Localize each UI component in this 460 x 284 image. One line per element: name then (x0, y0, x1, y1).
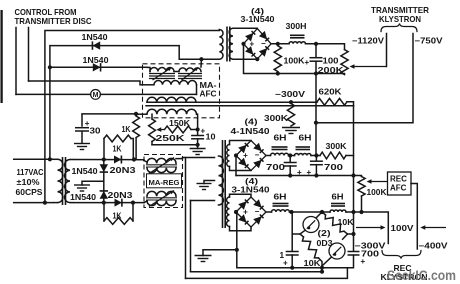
svg-text:3-1N540: 3-1N540 (232, 186, 271, 195)
svg-text:100V: 100V (391, 224, 415, 233)
label 700 (second) (324, 163, 344, 172)
label 620K (319, 88, 342, 97)
node junction vac bottom (43, 201, 47, 205)
resistor R6 200K pot (341, 50, 348, 75)
node junction 100K top (276, 42, 280, 46)
wire inner bottom rail (191, 268, 323, 272)
diode CR5 20N3 down (100, 164, 108, 172)
label 10 (206, 133, 216, 142)
label -750V (415, 37, 444, 46)
svg-text:+: + (361, 257, 366, 266)
svg-text:+: + (243, 151, 248, 160)
svg-text:1N540: 1N540 (82, 33, 108, 42)
label 100K (filter) (284, 56, 305, 65)
svg-text:250K: 250K (156, 134, 185, 143)
svg-text:−: − (255, 151, 260, 160)
wire bridge3 positive rail (266, 212, 388, 244)
svg-text:6H: 6H (274, 193, 287, 202)
transformer T3 secondary A (227, 145, 230, 167)
transformer T2 secondary (65, 160, 74, 203)
svg-text:−: − (255, 207, 260, 216)
svg-text:30: 30 (90, 127, 102, 136)
node junction -300V/300K (289, 100, 293, 104)
svg-text:+: + (305, 58, 310, 67)
resistor R8 620K (317, 98, 354, 105)
label +-10% (17, 178, 41, 187)
wire T3 primary bottom (191, 200, 215, 202)
svg-text:10K: 10K (338, 218, 354, 227)
variable transformer lower (MA-REG) (146, 191, 177, 207)
label -300V (terminal) (355, 242, 387, 251)
node junction 100K bottom (276, 71, 280, 75)
label CONTROL FROM TRANSMITTER DISC (15, 8, 92, 26)
wire bridge1 negative drop (244, 44, 345, 74)
resistor R10 10K upper (322, 212, 348, 234)
label (4) bridge3 (245, 177, 258, 186)
label TRANSMITTER (371, 6, 429, 15)
label (4) bridge1 (251, 7, 264, 16)
label 6H (fourth) (332, 193, 344, 202)
transformer T3 ground tap (197, 181, 215, 190)
svg-text:1K: 1K (122, 125, 131, 134)
wire -750V lead (316, 34, 413, 123)
node inner rail join (320, 270, 324, 274)
node junction cap10 bottom (196, 143, 200, 147)
wire 250K bottom to cap (152, 144, 198, 146)
capacitor C6 700 (348, 252, 360, 268)
variable inductor L1 (MA-AFC left) (149, 68, 175, 81)
svg-text:100K: 100K (367, 188, 387, 197)
wire +30 cap top run (82, 113, 136, 115)
label +100 (305, 56, 340, 67)
svg-text:700: 700 (266, 163, 286, 172)
svg-text:150K: 150K (169, 119, 190, 128)
label 700 (first) (266, 163, 286, 172)
MA-AFC dashed enclosure (143, 64, 220, 118)
wire x316 vertical (315, 74, 317, 156)
wire T1 sec bottom to bridge (233, 58, 257, 60)
label 100K (pot) (367, 188, 387, 197)
node junction y123 line (314, 121, 318, 125)
svg-text:1N540: 1N540 (83, 56, 109, 65)
label 150K (169, 119, 190, 128)
node reg diamond bottom (320, 266, 324, 270)
label 20N3 (upper) (110, 166, 137, 175)
label (4) bridge2 (245, 118, 258, 127)
transformer T1 core (227, 27, 230, 62)
svg-text:20N3: 20N3 (108, 191, 134, 200)
inductor 6H choke1 (271, 147, 289, 156)
node junction rail 700a (288, 173, 292, 177)
label 1N540 (second diode) (83, 56, 109, 65)
label 4-IN540 bridge2 (231, 127, 271, 136)
label (2) (318, 229, 331, 238)
MA-REG dashed enclosure (144, 155, 183, 208)
wire filter bottom rail (236, 176, 362, 177)
wire reg diamond right link (348, 233, 354, 235)
node junction reg diamond top (320, 210, 324, 214)
svg-text:10K: 10K (304, 259, 321, 268)
svg-text:+: + (249, 39, 254, 48)
diode CR3 1N540 on top wire (114, 156, 121, 164)
inductor 6H choke3 (272, 204, 290, 213)
wire main right vertical (353, 106, 355, 212)
label 1K (diode bypass bottom) (113, 212, 122, 221)
node junction rail 700b (314, 173, 318, 177)
wire cap1 branch (291, 212, 294, 251)
node reg diamond right (351, 232, 355, 236)
diode CR6 20N3 up (100, 191, 108, 199)
label REC (bottom) (394, 264, 412, 273)
label 250K (156, 134, 185, 143)
wire REC AFC to -400V (411, 184, 417, 250)
bridge rectifier D1 3-IN540 (244, 29, 272, 59)
node junction 700a top (288, 153, 292, 157)
node bridge1 bottom vertex (255, 57, 259, 61)
brace rec klystron (382, 251, 421, 259)
resistor R3 1K bypass top (104, 135, 133, 159)
label 10K (lower) (304, 259, 321, 268)
wire bridge2 positive rail (266, 155, 320, 157)
REC AFC box (388, 172, 412, 195)
node junction secondary top left (102, 157, 106, 161)
label + for C5 (283, 259, 288, 268)
svg-text:AFC: AFC (390, 183, 407, 192)
wire motor control line (16, 93, 197, 95)
node junction 10cap top (196, 127, 200, 131)
label + for C6 (361, 257, 366, 266)
svg-text:6H: 6H (332, 193, 344, 202)
svg-text:±10%: ±10% (17, 178, 41, 187)
node junction pot bottom (359, 210, 363, 214)
wire T1 secondary bottom (74, 202, 144, 204)
wire -1120V lead (386, 34, 388, 67)
wire T3 secA to bridge2 top (230, 141, 252, 145)
transformer T3 secondary B (227, 197, 230, 226)
inductor row4 (MA-AFC) (136, 109, 198, 114)
svg-text:1K: 1K (113, 144, 122, 153)
svg-text:300K: 300K (326, 142, 347, 151)
transformer T3 core (223, 140, 226, 228)
label 700 (third) (361, 250, 380, 259)
transformer T1 secondary (229, 28, 233, 59)
svg-text:1N540: 1N540 (70, 193, 96, 202)
wire row4 right drop (197, 114, 199, 129)
svg-text:KLYSTRON: KLYSTRON (379, 15, 421, 24)
wire cap10 ground stem (197, 145, 199, 149)
label 3-IN540 bridge3 (232, 186, 271, 195)
node junction secondary top right (132, 157, 136, 161)
svg-text:−1120V: −1120V (352, 37, 385, 46)
label -400V (terminal) (419, 242, 449, 251)
wire bridge1 positive rail (271, 44, 344, 50)
wire top bus to transformer T1 (45, 31, 219, 203)
label + + marks (297, 168, 312, 177)
resistor R2 1K vertical (133, 116, 140, 160)
svg-text:AFC: AFC (200, 90, 217, 99)
resistor R4 1K bypass bottom (104, 203, 133, 225)
inductor 300H choke (289, 35, 306, 44)
label 6H (third) (274, 193, 287, 202)
resistor R14 150K (165, 126, 198, 133)
resistor R11 10K lower (300, 234, 322, 268)
label 100V (391, 224, 415, 233)
node bridge1 left vertex (241, 42, 245, 46)
node junction main vertical bottom (351, 210, 355, 214)
label MA-REG box (147, 174, 182, 188)
svg-text:20N3: 20N3 (110, 166, 137, 175)
label 6H (first) (274, 134, 287, 143)
label 300K (vertical) (264, 114, 288, 123)
svg-text:−750V: −750V (415, 37, 444, 46)
inductor row3 (MA-AFC) (147, 97, 196, 102)
transformer T2 core (63, 157, 66, 205)
ground for 300K (282, 128, 300, 134)
label 1N540 (top diode) (82, 33, 108, 42)
svg-text:CONTROL FROM: CONTROL FROM (15, 8, 77, 17)
svg-text:6H: 6H (299, 134, 312, 143)
wire control line B horizontal run (29, 81, 141, 85)
diode CR1 1N540 (92, 41, 100, 49)
transformer T3 primary (219, 156, 224, 205)
svg-text:+: + (283, 259, 288, 268)
node junction 700b top (314, 153, 318, 157)
label 60CPS (16, 188, 44, 197)
brace transmitter klystron (381, 24, 417, 32)
wire reg diamond left link (292, 233, 300, 235)
svg-text:300K: 300K (264, 114, 288, 123)
wire lower line to 620K corner (146, 105, 354, 107)
svg-text:(2): (2) (318, 229, 331, 238)
svg-text:M: M (93, 92, 99, 99)
ground for bridge3 (195, 256, 212, 262)
label 300H (286, 22, 307, 31)
node junction cap100 top (314, 42, 318, 46)
resistor R5 100K (274, 46, 281, 74)
wire ground tee (203, 250, 237, 256)
gas tube V1 OD3 (300, 212, 322, 234)
wire L1 left lead (146, 67, 150, 71)
svg-text:300H: 300H (286, 22, 307, 31)
svg-text:MA-REG: MA-REG (149, 178, 180, 187)
inductor 6H choke4 (330, 204, 346, 213)
svg-text:REC: REC (390, 174, 407, 183)
bridge rectifier D2 4-IN540 (236, 141, 266, 171)
bridge rectifier D3 3-IN540 (236, 197, 266, 227)
label -1120V (352, 37, 385, 46)
capacitor C5 1 (286, 252, 299, 268)
svg-text:700: 700 (324, 163, 344, 172)
inductor row2 (MA-AFC) (140, 81, 197, 85)
node junction reg rail left (289, 210, 293, 214)
label OD3 (317, 239, 333, 248)
svg-text:100K: 100K (284, 56, 305, 65)
watermark SeekIC.com (387, 268, 456, 283)
node junction cap1 rail (290, 266, 294, 270)
wire MA-REG to T3 primary top (176, 158, 215, 159)
wire T3 secA to bridge2 bottom (230, 167, 252, 171)
wire bridge2 negative drop (235, 156, 237, 176)
wire L2 riser to T1 (200, 59, 202, 67)
wire left inner drop (190, 201, 192, 272)
capacitor C7 10 (191, 130, 204, 145)
diode CR2 1N540 (93, 63, 101, 71)
label MA-AFC (200, 81, 217, 99)
variable transformer upper (MA-REG) (146, 158, 177, 174)
svg-text:60CPS: 60CPS (16, 188, 44, 197)
svg-text:117VAC: 117VAC (17, 168, 44, 177)
label + for C7 (201, 127, 206, 136)
wire second bus (50, 46, 219, 160)
pot wiper 150K arrow (156, 127, 164, 132)
wire 20N3 string (103, 160, 105, 203)
label 1K (upper) (122, 125, 131, 134)
svg-text:−300V: −300V (355, 242, 387, 251)
wire L1-L2 link (174, 71, 179, 73)
wire bridge3 negative drop (236, 212, 353, 268)
node junction rail main vertical (351, 173, 355, 177)
wire main vertical lower (353, 212, 355, 251)
label -300V (bus) (275, 90, 306, 99)
node junction secondary bottom left (102, 201, 106, 205)
wire 117VAC bottom lead (14, 202, 53, 204)
label KLYSTRON (bottom) (381, 273, 428, 282)
svg-text:−300V: −300V (275, 90, 306, 99)
resistor R13 250K vertical (149, 114, 156, 145)
wire T3 secB to bridge3 bottom (230, 227, 252, 231)
wire outer bottom rail (186, 268, 348, 279)
node junction 1K/row4/cap30 (134, 112, 138, 116)
inductor 6H choke2 (295, 147, 312, 156)
wire row2 drop to motor line (196, 85, 198, 95)
diode CR4 1N540 on bottom wire (115, 199, 122, 207)
label 30 (90, 127, 102, 136)
svg-text:4-1N540: 4-1N540 (231, 127, 271, 136)
wire T1 secondary top (74, 160, 144, 161)
arrow to -300V terminal (356, 225, 386, 230)
ground for C1 (74, 144, 90, 150)
wire T1 sec top to bridge (233, 27, 257, 29)
wire 117VAC top lead (14, 158, 53, 160)
svg-text:−400V: −400V (419, 242, 449, 251)
ground for 20N3 midpoint (74, 185, 90, 191)
pot wiper 200K (350, 64, 387, 69)
svg-text:100: 100 (323, 56, 340, 65)
gas tube V2 OD3 (322, 234, 348, 266)
label 300K (horizontal) (326, 142, 347, 151)
transformer T2 primary (53, 159, 63, 202)
node junction T1 primary bottom (199, 57, 203, 61)
node junction on second bus (48, 65, 52, 69)
svg-text:(4): (4) (245, 118, 258, 127)
label 3-IN540 bridge1 (241, 15, 275, 24)
arrow to -400V terminal (420, 225, 446, 230)
wire T3 secB to bridge3 top (230, 194, 252, 197)
wire MA-REG coil links (144, 161, 147, 203)
node junction secondary bottom right (131, 201, 135, 205)
svg-text:10: 10 (206, 133, 216, 142)
svg-text:TRANSMITTER DISC: TRANSMITTER DISC (15, 17, 92, 26)
ground for C7 (190, 149, 206, 155)
label 10K (upper) (338, 218, 354, 227)
transformer T1 primary (219, 30, 223, 60)
variable inductor L2 (MA-AFC right) (178, 68, 202, 81)
label 20N3 (lower) (108, 191, 134, 200)
node bridge3 left vertex (234, 210, 238, 214)
capacitor C1 30 (75, 114, 90, 144)
svg-text:200K: 200K (318, 66, 344, 75)
resistor R7 300K vertical (287, 104, 294, 127)
resistor R9 300K horizontal (320, 152, 354, 159)
capacitor C3 700 (284, 156, 297, 176)
capacitor C2 100 (310, 44, 323, 74)
resistor R12 100K pot (358, 177, 365, 213)
wire 1N540 #2 feed (50, 66, 146, 68)
svg-text:SeekIC.com: SeekIC.com (387, 268, 456, 283)
svg-text:1N540: 1N540 (72, 167, 98, 176)
node junction cap100 bottom (314, 71, 318, 75)
node bridge2 left vertex (234, 153, 238, 157)
label IN540 (upper rect) (72, 167, 98, 176)
svg-text:TRANSMITTER: TRANSMITTER (371, 6, 429, 15)
node junction vac top (48, 157, 52, 161)
wire 20N3 midpoint to ground (82, 181, 104, 185)
svg-text:6H: 6H (274, 134, 287, 143)
label IN540 (lower rect) (70, 193, 96, 202)
wire control line A (x=16) (15, 28, 17, 95)
svg-text:620K: 620K (319, 88, 342, 97)
label KLYSTRON (top) (379, 15, 421, 24)
label 1K (diode bypass top) (113, 144, 122, 153)
label 117VAC (17, 168, 44, 177)
svg-text:+: + (243, 208, 248, 217)
scan artifact left edge line (0, 10, 2, 103)
motor M (91, 90, 101, 100)
svg-text:3-1N540: 3-1N540 (241, 15, 275, 24)
label 6H (second) (299, 134, 312, 143)
wire -300V bus (147, 101, 317, 103)
node ground tee (235, 248, 239, 252)
pot wiper 100K (367, 179, 388, 184)
wire left outer drop (185, 158, 187, 279)
label 1 (280, 251, 285, 260)
svg-text:−: − (261, 39, 266, 48)
capacitor C4 700 (310, 156, 323, 176)
label 200K (318, 66, 344, 75)
wire control line B (x=28.5) (28, 28, 30, 82)
